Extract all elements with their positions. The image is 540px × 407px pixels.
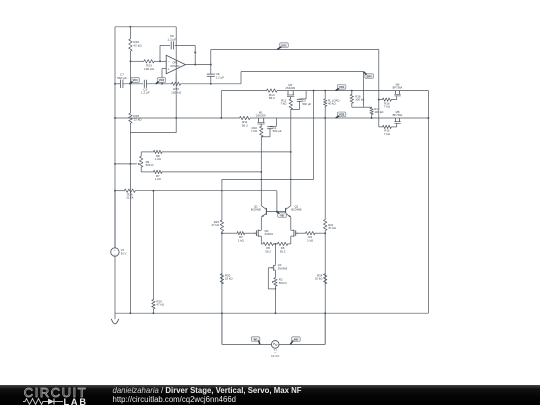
node flag VG (280, 43, 289, 48)
resistor R6 (275, 243, 277, 245)
wire V1 box bottom (222, 343, 272, 345)
node flag servo (365, 74, 374, 79)
wire inverting input (130, 60, 143, 62)
ground GND left (114, 313, 116, 319)
node flag out+ (337, 85, 346, 90)
transistor Q1 (265, 208, 267, 215)
resistor R29 (152, 300, 155, 309)
wire V1 box left (221, 313, 223, 344)
resistor R_LOAD (324, 99, 327, 107)
wire R29 rail (152, 191, 154, 300)
wire servo rail y84 (115, 83, 121, 85)
resistor R14 (267, 89, 278, 92)
resistor R16 (379, 99, 383, 101)
resistor R21 (324, 220, 327, 231)
wire feedback y179.4 (222, 178, 314, 180)
resistor R25 (129, 113, 132, 123)
resistor R26 (172, 82, 181, 85)
wire M4 gate (298, 232, 306, 234)
wire V1 box right (324, 313, 326, 344)
node flag in- (292, 337, 301, 342)
op-amp OP1 (166, 55, 185, 74)
wire M1 tail (260, 137, 262, 204)
wire right gate rail x378.8 (378, 50, 380, 127)
transistor M2 (287, 91, 289, 95)
capacitor C8 (210, 65, 212, 75)
resistor R18 (351, 91, 353, 95)
wire pot top y151.9 (141, 151, 153, 153)
resistor R8 (154, 150, 163, 153)
wire tail to rail (274, 286, 276, 313)
wire right divider rail (324, 91, 326, 99)
wire top-left rail (115, 26, 176, 28)
resistor R10 (260, 126, 263, 137)
wire M2 tail (290, 109, 292, 203)
wire bottom rail (115, 312, 428, 314)
wire output up (210, 50, 212, 65)
wire right rail (427, 91, 429, 314)
wire second rail (129, 27, 131, 39)
capacitor C7 (120, 80, 122, 88)
resistor R5 (261, 243, 263, 245)
wire non-inverting input (162, 68, 166, 70)
resistor R3 (237, 232, 245, 235)
source V1 (271, 341, 279, 349)
resistor R28 (124, 189, 135, 192)
transistor M6 (395, 91, 397, 95)
resistor R7 (154, 170, 163, 173)
resistor R17 (364, 106, 372, 108)
wire upper-lower link x221.3 (220, 91, 222, 118)
transistor Q2 (285, 208, 287, 215)
transistor M8 (395, 118, 397, 122)
potentiometer R9 (140, 152, 142, 156)
wire op-amp Vminus down (175, 84, 177, 133)
logo diode (48, 398, 54, 404)
resistor R23 (144, 60, 154, 63)
wire Q3 gate bypass (267, 268, 269, 289)
wire x313.6 vertical (313, 91, 315, 180)
wire upper output y90.6 (221, 90, 266, 92)
node flag VB1 (131, 78, 140, 83)
wire servo to top (240, 72, 242, 84)
source V2 (114, 191, 116, 248)
wire gate line top y49.5 (211, 49, 379, 51)
wire lower y118 (115, 117, 240, 119)
wire feedback (160, 44, 170, 46)
resistor R22 (129, 39, 132, 51)
potentiometer R2 (274, 278, 277, 287)
wire op-amp V- stub (175, 55, 177, 84)
wire left divider rail (221, 179, 223, 220)
resistor R20 (220, 274, 223, 285)
resistor R19 (220, 220, 223, 231)
transistor M4 (295, 230, 297, 236)
node flag VB2 (157, 78, 166, 83)
wire op-amp output (185, 64, 210, 66)
wire tail down (274, 244, 276, 264)
node flag in+ (251, 337, 260, 342)
capacitor C1 (276, 118, 278, 126)
resistor R24 (324, 274, 327, 285)
capacitor C2 (305, 91, 307, 99)
capacitor C6 (170, 41, 172, 49)
wire M3 gate (222, 232, 237, 234)
wire pot bottom y171.9 (141, 171, 153, 173)
resistor R12 (289, 99, 292, 110)
wire left rail (114, 27, 116, 248)
capacitor C3 (143, 80, 145, 88)
node flag out- (337, 112, 346, 117)
logo resistor zigzag (23, 398, 48, 404)
transistor M1 (258, 118, 260, 122)
wire bias y190.7 (115, 190, 124, 192)
transistor Q3 current source (273, 265, 275, 271)
resistor R15 (379, 126, 383, 128)
resistor R4 (305, 232, 315, 235)
wire wiper line y163.9 (115, 163, 137, 165)
resistor R11 (240, 116, 251, 119)
wire op-amp V+ stub (175, 27, 177, 56)
current arrow on feedback (194, 52, 197, 54)
wire base tie (266, 210, 285, 212)
transistor M3 (255, 230, 257, 236)
node flag base (278, 213, 287, 218)
